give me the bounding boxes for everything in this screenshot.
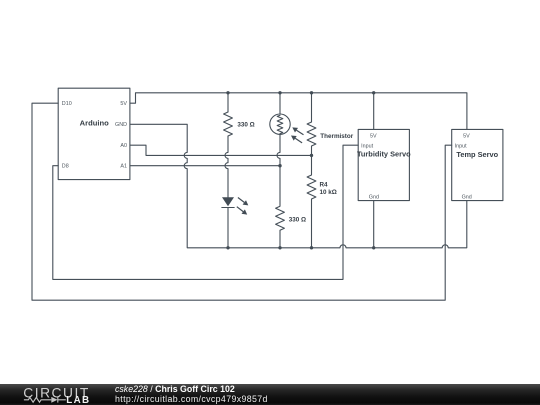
svg-text:330 Ω: 330 Ω	[237, 121, 254, 128]
svg-text:Gnd: Gnd	[462, 195, 472, 201]
svg-text:330 Ω: 330 Ω	[289, 216, 306, 223]
svg-text:LAB: LAB	[66, 395, 90, 405]
svg-text:Input: Input	[361, 144, 373, 150]
svg-text:Thermistor: Thermistor	[320, 133, 353, 140]
svg-text:Input: Input	[455, 144, 467, 150]
svg-text:R4: R4	[320, 181, 329, 188]
svg-text:Temp Servo: Temp Servo	[456, 150, 498, 159]
svg-text:A1: A1	[120, 164, 127, 170]
svg-text:Gnd: Gnd	[369, 195, 379, 201]
svg-text:Arduino: Arduino	[80, 118, 109, 127]
svg-text:D10: D10	[62, 101, 72, 107]
svg-text:5V: 5V	[370, 133, 377, 139]
svg-text:D8: D8	[62, 164, 69, 170]
svg-text:Turbidity Servo: Turbidity Servo	[357, 150, 411, 159]
svg-text:5V: 5V	[463, 133, 470, 139]
svg-text:A0: A0	[120, 143, 127, 149]
svg-text:5V: 5V	[120, 101, 127, 107]
svg-text:GND: GND	[115, 122, 127, 128]
svg-text:10 kΩ: 10 kΩ	[320, 189, 337, 196]
